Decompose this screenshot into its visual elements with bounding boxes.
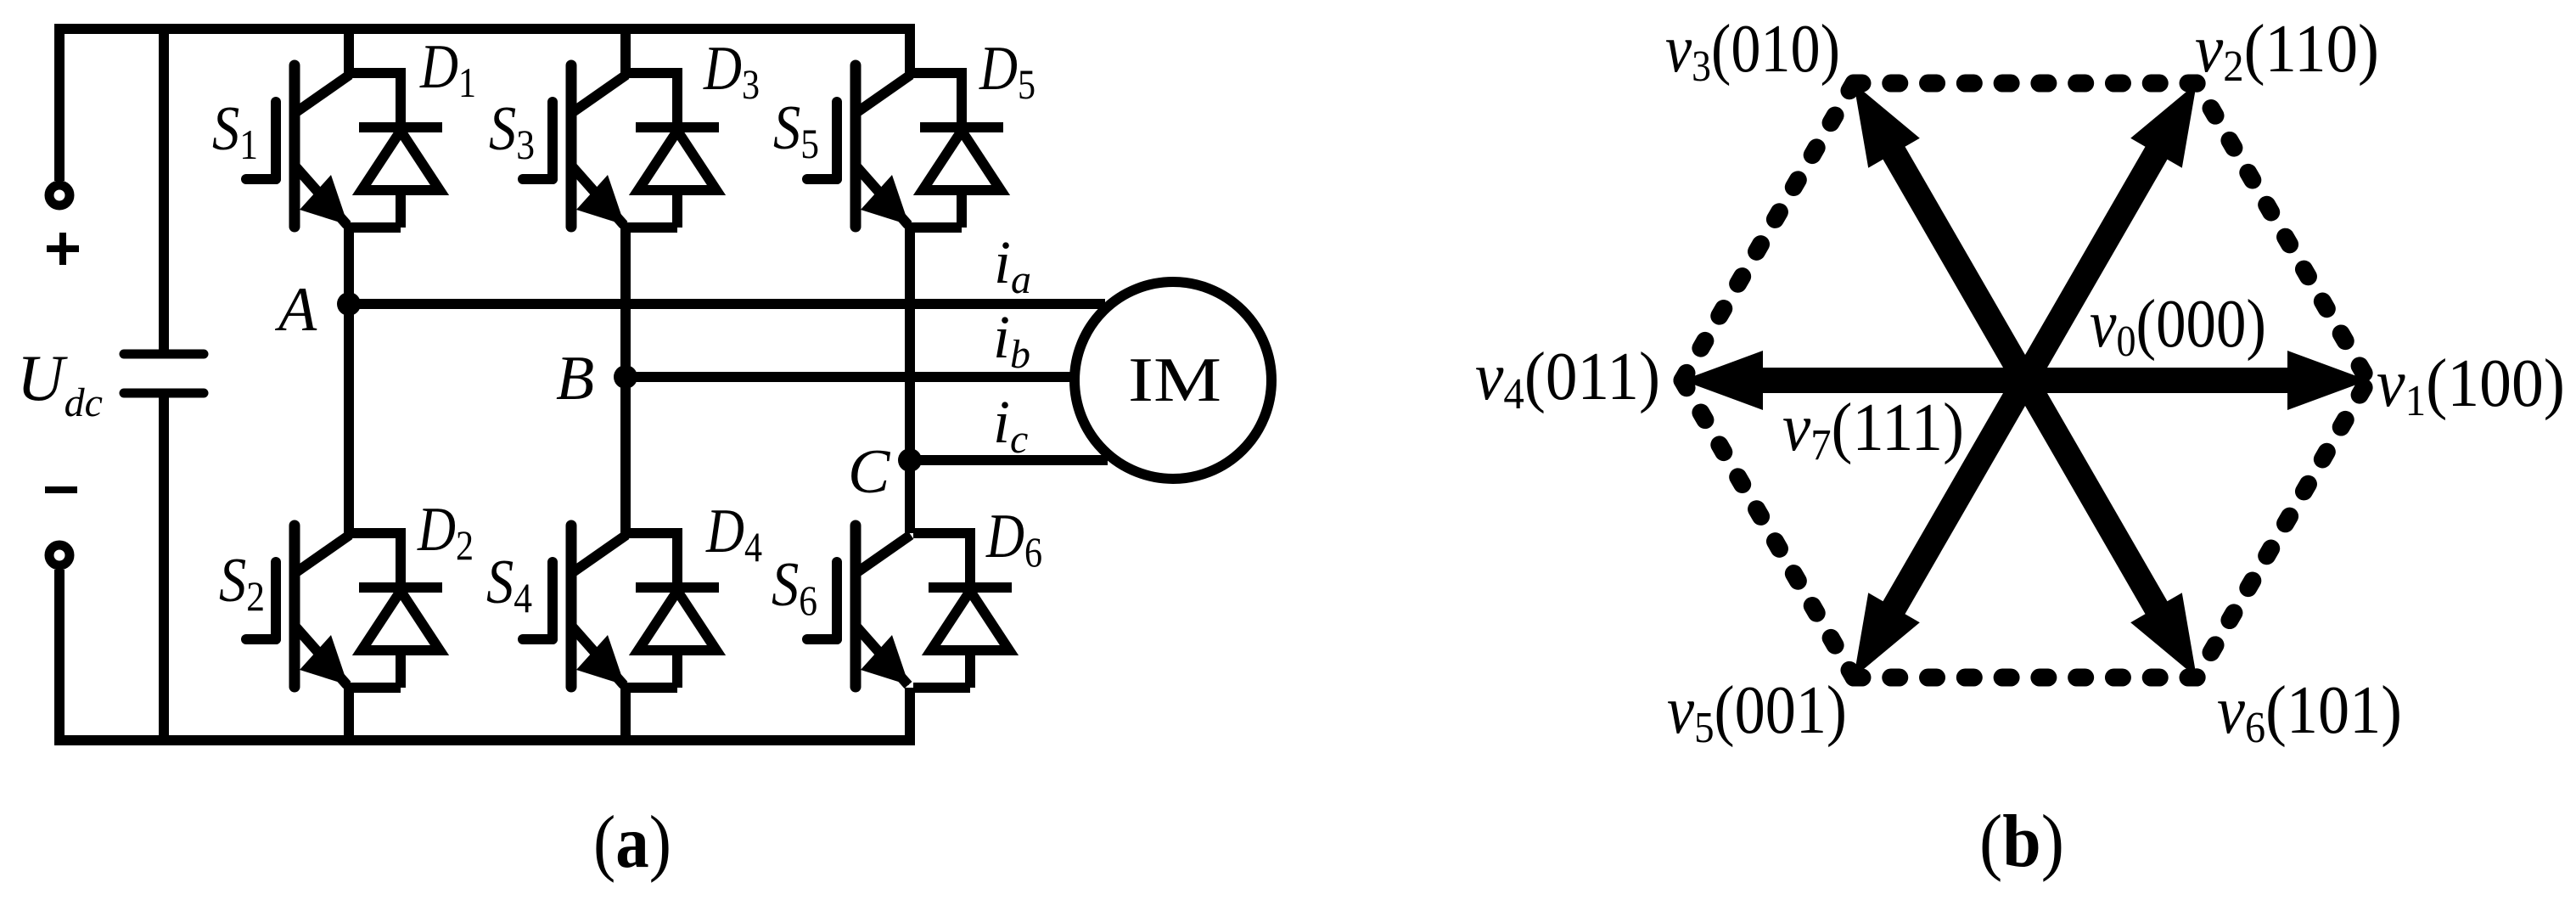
wire: leg3 top [905,29,915,73]
svg-text:B: B [556,344,594,413]
transistor S4 [523,526,626,687]
wire: top DC rail [59,29,915,181]
svg-text:(b): (b) [1979,801,2064,883]
wire: leg1 top [344,29,354,73]
svg-text:v6(101): v6(101) [2217,673,2402,752]
svg-text:IM: IM [1128,346,1221,415]
hexagon dashed edge v2-v1 [2197,83,2368,380]
svg-text:C: C [848,437,891,507]
hexagon dashed edge v6-v5 [1854,669,2197,687]
svg-text:S5: S5 [773,93,819,167]
wire: leg2 mid through node B [620,228,631,533]
svg-text:v1(100): v1(100) [2377,346,2565,425]
node A [337,292,361,316]
arrowhead v6 [2130,593,2197,677]
diode D4 [620,528,719,688]
svg-text:v5(001): v5(001) [1667,673,1847,752]
svg-text:D4: D4 [705,497,762,571]
arrowhead v5 [1854,593,1920,677]
svg-text:ia: ia [994,228,1031,302]
node C [898,448,922,472]
hexagon dashed edge v5-v4 [1682,380,1854,677]
hexagon dashed edge v1-v6 [2197,380,2368,677]
terminal - (bottom) [49,545,70,565]
svg-text:v0(000): v0(000) [2090,287,2266,366]
svg-text:A: A [274,275,317,345]
wire: leg1 bottom [344,688,354,740]
vector shaft v3-v6 [1883,135,2167,627]
arrowhead v1 [2287,351,2368,410]
wire: capacitor branch bottom [159,397,169,740]
vector shaft v5-v2 [1883,135,2167,627]
capacitor C plate top [124,350,204,359]
svg-text:(a): (a) [593,801,671,884]
diode D6 [913,528,1012,688]
svg-text:v3(010): v3(010) [1665,12,1840,91]
svg-text:v2(110): v2(110) [2195,12,2379,91]
motor IM [1075,282,1271,479]
svg-text:D1: D1 [419,32,476,106]
arrowhead v4 [1682,351,1763,410]
transistor S6 [807,526,911,687]
wire: leg3 bottom [905,688,915,740]
svg-text:D3: D3 [703,34,760,108]
hexagon dashed edge v3-v2 [1854,75,2197,93]
svg-text:S4: S4 [486,548,532,621]
node B [614,365,637,389]
capacitor C plate bottom [124,389,204,398]
svg-text:S1: S1 [212,94,258,168]
transistor S2 [246,526,350,687]
arrowhead v2 [2130,83,2197,168]
minus sign [45,486,77,493]
arrowhead v3 [1854,83,1920,168]
wire: phase C line to motor [910,455,1108,465]
svg-text:S2: S2 [219,546,265,620]
wire: phase B line to motor [626,372,1070,382]
diode D2 [344,528,442,688]
diode D5 [905,68,1003,228]
vector shaft v4-v1 [1742,368,2309,393]
transistor S1 [246,65,350,227]
plus sign [47,233,79,265]
wire: capacitor branch top [159,29,169,350]
wire: leg2 top [620,29,631,73]
svg-text:ib: ib [993,303,1030,377]
wire: leg1 mid through node A [344,228,354,533]
svg-text:v4(011): v4(011) [1475,340,1660,419]
wire: bottom DC rail [59,570,915,740]
svg-text:D2: D2 [417,495,474,569]
svg-text:S6: S6 [772,550,817,624]
svg-text:S3: S3 [489,94,535,168]
svg-text:D5: D5 [979,34,1035,108]
wire: leg3 mid through node C [905,228,915,533]
svg-text:D6: D6 [985,502,1042,576]
wire: leg2 bottom [620,688,631,740]
transistor S3 [523,65,626,227]
terminal + (top) [49,185,70,205]
hexagon dashed edge v4-v3 [1682,83,1854,380]
svg-text:ic: ic [993,388,1028,462]
diode D1 [344,68,442,228]
svg-text:v7(111): v7(111) [1782,391,1964,469]
wire: phase A line to motor [349,299,1105,309]
transistor S5 [807,65,911,227]
diode D3 [620,68,719,228]
svg-text:Udc: Udc [17,341,103,425]
